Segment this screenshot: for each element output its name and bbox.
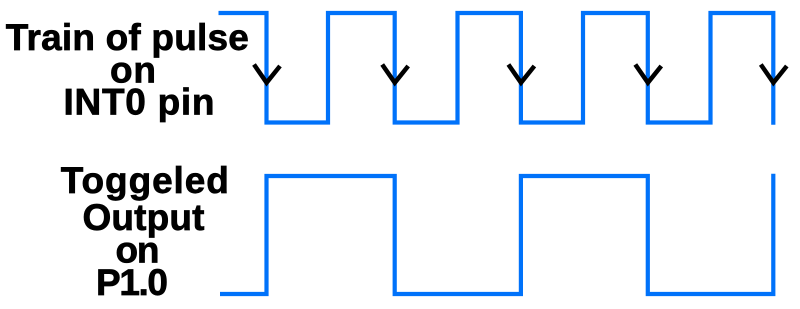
arrow 5 (falling edge marker) [761,65,787,83]
label: Train of pulse on INT0 pin [6,17,249,122]
arrow 3 (falling edge marker) [508,65,534,83]
svg-text:P1.0: P1.0 [96,262,168,303]
svg-text:INT0 pin: INT0 pin [64,82,215,123]
arrow 1 (falling edge marker) [254,65,280,83]
label: Toggeled Output on P1.0 [61,160,229,303]
arrow 2 (falling edge marker) [382,65,408,83]
svg-text:Toggeled: Toggeled [61,160,229,201]
arrow 4 (falling edge marker) [635,65,661,83]
wire: INT0 pulse train waveform [219,13,774,125]
wire: toggled output waveform on P1.0 [220,174,773,294]
